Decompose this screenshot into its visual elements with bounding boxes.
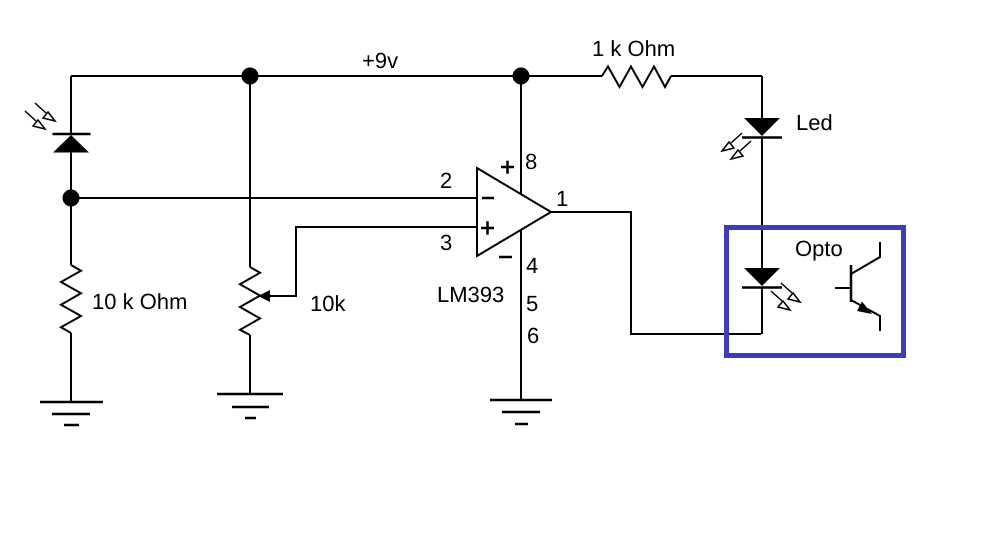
ground pot — [217, 394, 283, 418]
wire output pin1 — [551, 212, 761, 334]
label +9v — [363, 53, 398, 69]
op-amp plus input sign — [481, 221, 494, 234]
opto phototransistor Q1 — [835, 242, 880, 331]
wire top rail right segment — [671, 75, 762, 77]
label pin 8 — [526, 154, 536, 170]
wire left branch lower — [70, 333, 72, 402]
ground supply — [490, 400, 552, 424]
label 1 k Ohm — [594, 40, 674, 56]
wire wiper to pin3 — [266, 227, 477, 296]
opto photodiode light arrows — [771, 283, 800, 310]
op-amp U1 LM393 — [477, 168, 551, 256]
wire led branch top — [761, 76, 763, 118]
wire led to opto — [761, 138, 763, 268]
node junction photodiode-pin2 — [63, 190, 80, 207]
node junction top-supply — [513, 68, 530, 85]
op-amp minus input sign — [482, 197, 494, 200]
opto phototransistor emitter arrow — [857, 302, 872, 315]
photodiode D1 light arrows — [25, 103, 55, 129]
potentiometer wiper arrow — [258, 290, 296, 302]
label pin 4 — [527, 258, 538, 273]
label 10 k Ohm — [94, 293, 186, 309]
led D2 light arrows — [722, 133, 751, 159]
wire supply V+ — [520, 76, 522, 400]
resistor R2 1 k Ohm — [602, 67, 671, 88]
wire pot top — [249, 76, 251, 267]
label 10k — [312, 295, 346, 311]
opto photodiode D3 — [742, 268, 782, 288]
opto coupler box — [727, 228, 904, 356]
label pin 2 — [441, 173, 451, 188]
resistor R1 10 k Ohm — [61, 265, 81, 333]
wire pin2 input — [71, 197, 477, 199]
label LM393 — [439, 287, 504, 303]
wire top rail left segment — [71, 75, 602, 77]
wire pot bottom — [249, 335, 251, 394]
label pin 5 — [527, 296, 537, 311]
label pin 6 — [528, 328, 538, 344]
op-amp minus supply sign pin4 — [499, 256, 512, 259]
label Opto — [796, 241, 842, 261]
ground left — [40, 402, 103, 425]
node junction top-pot — [242, 68, 259, 85]
label Led — [798, 114, 832, 130]
photodiode D1 — [53, 134, 91, 153]
wire opto diode bottom — [761, 287, 763, 334]
op-amp plus supply sign pin8 — [501, 161, 514, 174]
label pin 3 — [441, 235, 452, 251]
wire left branch middle — [70, 152, 72, 265]
wire left branch upper — [70, 76, 72, 134]
potentiometer VR1 10k — [240, 267, 260, 335]
led D2 — [742, 118, 782, 138]
label pin 1 — [558, 191, 568, 206]
